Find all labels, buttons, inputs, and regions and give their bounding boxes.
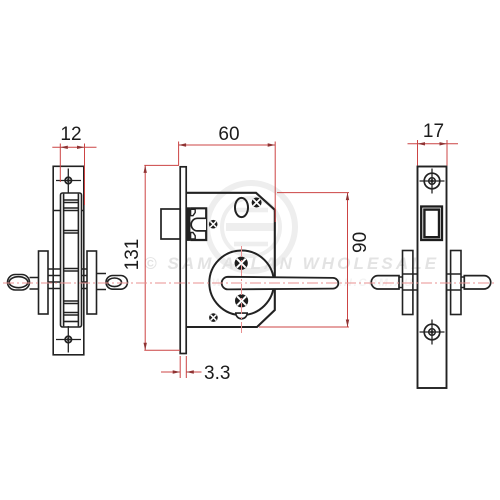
center faceplate [180,167,186,354]
center latch bolt head [161,209,180,239]
left view spindle lines left gap [48,269,61,289]
left view rung pair C [64,231,79,234]
dim 60 arrows [179,143,187,146]
arrowheads [60,142,447,374]
left view spindle lines right gap [82,269,88,289]
latch upper tooth [191,209,196,215]
dim 17 line [408,143,459,145]
dim 60 extension lines [179,142,276,223]
center case body [186,193,275,327]
left view rosette plate right [87,251,97,314]
dim 17 arrows [418,142,426,145]
svg-text:60: 60 [218,124,239,145]
dim 12 extension lines [60,144,84,206]
left view faceplate [53,166,84,354]
case screw top right [252,198,262,208]
right view latch opening outer [421,207,442,241]
dim 131 line [144,165,146,350]
dim 131 extension lines [144,165,180,350]
dim 12 line [52,146,96,148]
dim 90 arrows [346,193,349,201]
svg-text:3.3: 3.3 [204,363,230,384]
horizontal centerline [3,282,496,284]
dim 3.3 lines [161,371,202,373]
right view neck left [399,277,403,288]
rosette circle [209,250,274,315]
watermark logo circle [207,183,295,271]
right view handle oval right [464,276,490,289]
latch lower tooth [191,233,196,240]
right view neck right [461,277,464,288]
left view rung pair E [64,301,79,304]
right view rosette plate left [403,251,413,315]
left view handle oval left [8,275,30,291]
left view rosette plate left [39,251,49,314]
vertical centerline rosette [241,246,243,334]
right view rosette plate right [451,251,461,315]
left view plate ticks [53,210,84,212]
left view top screw hole [56,169,81,194]
dim 90 line [347,193,349,327]
dim 12 arrows [60,146,68,149]
left view handle oval right inner [108,278,122,287]
case oval hole [235,198,248,217]
left view rung pair A [64,200,79,203]
svg-text:12: 12 [60,124,81,145]
dim texts [60,121,444,384]
left view rung pair B [64,208,79,211]
right view rosette division lines [403,274,462,290]
left view handle oval left inner [9,277,28,288]
left view handle oval right [106,276,128,290]
left view neck right [97,274,107,290]
svg-text:90: 90 [350,232,371,253]
left view rung pair G [64,321,79,323]
svg-text:131: 131 [122,239,143,271]
left view case column [61,193,82,327]
rosette screw bottom [235,294,248,307]
left view bottom screw hole [56,326,81,353]
centerlines [3,246,496,334]
right view handle oval left [371,276,399,289]
left view case inner walls [64,194,79,327]
right view latch opening inner [424,210,439,238]
svg-text:© SAM ALLAN WHOLESALE: © SAM ALLAN WHOLESALE [144,254,439,273]
dim 131 arrows [144,165,147,173]
right view bottom screw [420,320,445,345]
dim 90 extension lines [259,193,349,327]
left view rung pair D [64,269,79,272]
right view spindle lines [413,274,451,290]
rosette screw top [235,257,248,270]
case screw mid left [209,220,218,229]
case screw bottom left [209,313,218,322]
dim 60 line [179,144,276,146]
latch spring U [191,218,206,231]
svg-text:17: 17 [423,121,444,142]
left view neck left [30,278,39,290]
dim 3.3 arrows [173,370,181,373]
lever handle [222,277,339,290]
right view top screw [420,169,445,194]
watermark text line 1 [144,254,439,273]
right view plate [418,167,447,389]
dim 17 extension lines [418,140,448,166]
left view rung pair F [64,313,79,316]
rosette bottom notch [236,313,247,319]
dim 3.3 extension lines [180,356,186,378]
latch housing black bar [187,207,191,241]
watermark text line 2 [212,277,414,289]
latch housing outline [190,208,206,240]
